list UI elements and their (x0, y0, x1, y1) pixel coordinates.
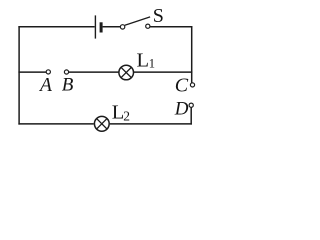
switch S: pivot contact circle (120, 25, 124, 29)
wire: bottom side, left of lamp L2 (18, 123, 93, 125)
wire: terminal D down to bottom-right corner (190, 107, 192, 124)
wire: terminal B to lamp L1 (69, 71, 119, 73)
lamp L1: cross stroke SW-NE (121, 67, 131, 77)
wire: battery to switch (103, 26, 121, 28)
svg-text:L: L (137, 49, 150, 71)
svg-text:B: B (62, 75, 74, 96)
terminal C: open circle (190, 83, 194, 87)
lamp L2: bulb circle (94, 116, 109, 131)
wire: right vertical down to terminal C (191, 26, 193, 83)
battery G1: long thin plate (94, 15, 96, 38)
wire: top side, switch to top-right corner (150, 26, 192, 28)
terminal D: open circle (189, 103, 193, 107)
svg-text:2: 2 (123, 109, 130, 124)
battery G1: short thick plate (100, 22, 103, 32)
svg-text:D: D (174, 98, 189, 119)
wire: lamp L1 to right vertical (134, 71, 192, 73)
wire: top side, left of battery (18, 26, 94, 28)
wire: middle row, left side to terminal A (18, 71, 46, 73)
lamp L2: cross stroke NW-SE (97, 119, 107, 129)
wire: left vertical side (18, 26, 20, 125)
switch S: open blade (125, 17, 150, 25)
switch S: fixed contact circle (146, 24, 150, 28)
svg-text:C: C (175, 74, 189, 96)
wire: bottom side, right of lamp L2 (110, 123, 192, 125)
svg-text:A: A (38, 75, 52, 96)
svg-text:S: S (153, 5, 164, 27)
svg-text:1: 1 (149, 57, 155, 71)
terminal B: open circle (64, 70, 68, 74)
lamp L1: cross stroke NW-SE (121, 67, 131, 77)
lamp L1: bulb circle (119, 65, 134, 80)
lamp L2: cross stroke SW-NE (97, 119, 107, 129)
terminal A: open circle (46, 70, 50, 74)
